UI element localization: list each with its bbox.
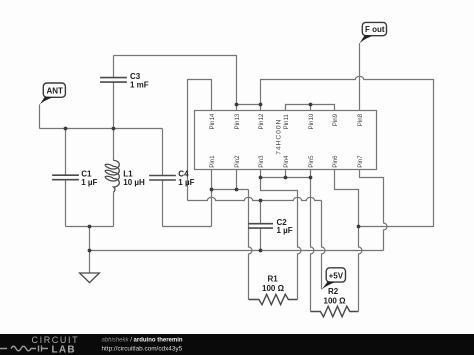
svg-text:Pin6: Pin6 (332, 155, 339, 168)
node ground rail junction (88, 249, 92, 253)
node Pin13 junction (235, 103, 239, 107)
capacitor C4 (149, 170, 194, 187)
node +5V flag (322, 268, 346, 290)
wire C1 bottom lead (65, 180, 67, 226)
wire VCC horizontal rail with hops (188, 197, 322, 200)
svg-text:1 µF: 1 µF (277, 226, 293, 235)
node VCC-C2 junction (259, 199, 263, 203)
svg-text:Pin4: Pin4 (283, 155, 290, 168)
capacitor C1 (52, 169, 97, 186)
svg-text:R2: R2 (328, 287, 339, 296)
footer bar (0, 334, 474, 355)
wire Pin2 stub (236, 170, 238, 190)
svg-text:Pin12: Pin12 (258, 113, 265, 129)
capacitor C3 (100, 72, 149, 90)
svg-text:Pin7: Pin7 (357, 155, 364, 168)
wire Pin4 stub (285, 170, 287, 178)
ground (80, 273, 100, 283)
svg-text:Pin2: Pin2 (234, 155, 241, 168)
wire C2 top lead (260, 201, 262, 224)
wire Pin1 stub down to tank rail (211, 170, 213, 227)
svg-text:Pin3: Pin3 (258, 155, 265, 168)
resistor R2 (311, 287, 359, 317)
wire ANT vertical (39, 104, 41, 128)
wire C1 top lead (65, 129, 67, 175)
svg-text:10 µH: 10 µH (123, 178, 145, 187)
node Pin5 junction (309, 176, 313, 180)
svg-text:C3: C3 (130, 72, 141, 81)
wire Pin12 net right side loop down to Pin6 node (261, 76, 434, 226)
svg-text:LAB: LAB (52, 345, 76, 355)
wire C2 bottom lead (260, 229, 262, 251)
wire VCC down to +5V flag with hop over ground rail (322, 201, 326, 290)
svg-text:100 Ω: 100 Ω (262, 284, 285, 293)
wire R1 left vertical with hop over ground rail (249, 190, 253, 300)
svg-text:F out: F out (365, 25, 385, 34)
inductor L1 (105, 160, 145, 192)
node Pin12 junction (259, 103, 263, 107)
resistor R1 (249, 274, 298, 304)
wire U Pin11-Pin10-Pin9 (286, 105, 335, 111)
wire ANT horizontal rail (40, 128, 163, 130)
wire Pin14 loop to VCC corner (188, 80, 212, 201)
node ANT-C3-L1 junction (112, 127, 116, 131)
wire F out vertical to Pin8 (359, 43, 361, 110)
node ANT flag (40, 83, 66, 105)
node ANT-C1 junction (64, 127, 68, 131)
node Pin1 junction (210, 188, 214, 192)
svg-text:1 µF: 1 µF (178, 178, 194, 187)
svg-text:Pin5: Pin5 (308, 155, 315, 168)
node C2-ground junction (259, 249, 263, 253)
wire Pin6 stub over and down to R2 right with hop over ground rail (335, 170, 363, 312)
svg-text:1 µF: 1 µF (81, 178, 97, 187)
wire Pin7 stub right and down to ground rail with hop (360, 170, 388, 251)
wire Pin5 down to R2 left with hop over ground rail (311, 170, 315, 312)
svg-text:Pin9: Pin9 (332, 113, 339, 126)
wire ground drop (89, 227, 91, 274)
svg-text:Pin14: Pin14 (209, 113, 216, 129)
wire Pin12 stub (260, 105, 262, 111)
svg-text:http://circuitlab.com/cdx43y5: http://circuitlab.com/cdx43y5 (102, 346, 183, 353)
footer logo waveform (0, 346, 48, 352)
wire Pin3 stub (260, 170, 262, 178)
svg-text:Pin13: Pin13 (234, 113, 241, 129)
node Pin6-feedback junction (357, 225, 361, 229)
node Pin2 junction (235, 188, 239, 192)
node Pin10 junction (309, 103, 313, 107)
wire L1 top lead (113, 129, 115, 161)
svg-text:Pin8: Pin8 (357, 113, 364, 126)
wire right tank bottom rail (163, 226, 212, 228)
wire Pin13 to Pin12 link (237, 104, 261, 106)
svg-text:CIRCUIT: CIRCUIT (32, 335, 80, 345)
wire top rail C3 to Pin13 (114, 56, 237, 105)
wire C3 top lead (113, 56, 115, 78)
node tank-ground junction (88, 225, 92, 229)
node Pin3 junction (259, 176, 263, 180)
svg-text:abhishekk / arduino theremin: abhishekk / arduino theremin (102, 337, 183, 343)
wire Pin3-Pin4-Pin5 row (261, 177, 311, 179)
svg-text:1 mF: 1 mF (130, 81, 149, 90)
svg-text:+5V: +5V (329, 271, 344, 280)
svg-text:Pin11: Pin11 (283, 114, 290, 130)
wire L1 bottom lead (113, 192, 115, 226)
node Pin4 junction (284, 176, 288, 180)
wire R1 right vertical up and over to Pin3 (261, 178, 302, 300)
wire C4 top lead (162, 129, 164, 176)
wire Pin13 stub (236, 105, 238, 111)
wire C4 bottom lead (162, 180, 164, 226)
IC U1 body 74HC00N (195, 111, 377, 170)
svg-text:R1: R1 (268, 274, 279, 283)
wire left tank bottom rail (66, 226, 114, 228)
wire C3 bottom lead (113, 83, 115, 129)
svg-text:Pin10: Pin10 (308, 113, 315, 129)
svg-text:ANT: ANT (47, 87, 64, 96)
svg-text:Pin1: Pin1 (209, 155, 216, 168)
capacitor C2 (248, 218, 293, 235)
svg-text:100 Ω: 100 Ω (324, 296, 347, 305)
wire Pin1-Pin2 row (212, 189, 249, 191)
wire ground rail (90, 250, 384, 252)
svg-text:74HC00N: 74HC00N (276, 119, 283, 155)
node F out flag (360, 22, 387, 43)
